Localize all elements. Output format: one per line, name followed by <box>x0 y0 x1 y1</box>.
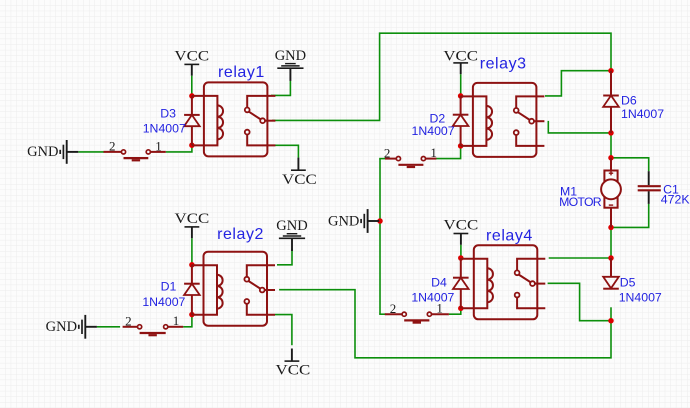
pin number 1 of S2 <box>173 313 180 328</box>
pin number 1 of S4 <box>436 301 443 316</box>
value label 1N4007 of D2 <box>412 124 455 138</box>
pin number 2 of S2 <box>125 314 132 329</box>
label relay2 <box>217 226 264 243</box>
svg-text:GND: GND <box>27 144 58 160</box>
wire VCC3 stem to relay3 coil top <box>460 74 462 96</box>
value label 472K of C1 <box>661 192 690 206</box>
junction relay3 coil+ / D2 / VCC3 <box>458 93 464 99</box>
power symbol VCC1 (above relay1) <box>174 49 209 76</box>
value label 1N4007 of D6 <box>621 107 664 121</box>
junction net B / D5 / relay4 common <box>608 318 614 324</box>
pushbutton S1 <box>104 150 166 162</box>
relay relay3 (coil + SPDT contacts) <box>461 83 545 157</box>
label D6 <box>621 94 637 108</box>
svg-text:2: 2 <box>390 301 397 316</box>
wire VCC2 stem to relay2 coil top <box>191 238 193 265</box>
wire button S3 pin1 to relay3 coil junction <box>436 146 461 159</box>
svg-text:1N4007: 1N4007 <box>621 107 664 121</box>
wire VCC4 stem to relay4 coil top <box>460 245 462 258</box>
svg-text:D5: D5 <box>620 275 636 289</box>
relay relay2 (coil + SPDT contacts) <box>192 252 276 326</box>
svg-text:relay1: relay1 <box>218 64 265 81</box>
diode D2 (1N4007, cathode up) <box>453 96 469 146</box>
wire relay2 NO to GND5 symbol <box>277 249 292 265</box>
junction net A / D6 / relay3 NO <box>608 68 614 74</box>
svg-text:VCC: VCC <box>175 211 210 227</box>
wire button S1 pin1 to relay1 coil junction <box>166 145 192 152</box>
diode D3 (1N4007, cathode up) <box>184 96 200 145</box>
junction center GND tap <box>377 218 383 224</box>
power symbol VCC2 (above relay2) <box>175 211 210 238</box>
ground symbol GND2 (left of button S2) <box>46 315 97 339</box>
svg-text:D6: D6 <box>621 94 637 108</box>
junction relay4 coil+ / D4 / VCC4 <box>458 255 464 261</box>
wire relay4 NO contact to D5 top junction <box>549 257 611 259</box>
junction motor- / C1 bottom <box>608 225 614 231</box>
svg-text:472K: 472K <box>661 192 690 206</box>
label D3 <box>160 107 176 121</box>
svg-text:D4: D4 <box>431 275 447 289</box>
label D5 <box>620 275 636 289</box>
capacitor C1 <box>638 171 661 204</box>
svg-text:relay3: relay3 <box>480 56 527 73</box>
wire motor top junction to C1 top <box>611 158 649 171</box>
wire GND1 to button S1 <box>78 151 104 153</box>
wire D5 bottom junction to bottom rail to relay2 common (net B) <box>279 290 611 358</box>
power symbol VCC3 (above relay3) <box>443 49 478 74</box>
wire relay1 NC to VCC5 symbol <box>275 145 298 158</box>
value label 1N4007 of D3 <box>143 122 186 136</box>
ground symbol GND1 (left of button S1) <box>27 140 78 164</box>
ground symbol GND5 (above relay2 NO) <box>276 218 307 251</box>
junction relay2 coil+ / D1 / VCC2 <box>189 262 195 268</box>
label D2 <box>429 112 445 126</box>
svg-text:1: 1 <box>155 138 162 153</box>
svg-text:1N4007: 1N4007 <box>411 291 454 305</box>
wire button S4 pin1 to relay4 coil junction <box>449 308 461 314</box>
value label 1N4007 of D1 <box>142 295 185 309</box>
svg-text:2: 2 <box>384 145 391 160</box>
wire button S4 pin2 elbow <box>379 313 386 315</box>
ground symbol GND4 (above relay1 NO) <box>275 48 306 81</box>
pin number 2 of S3 <box>384 145 391 160</box>
motor M1 <box>601 158 621 228</box>
junction relay2 coil- / D1 / S2 <box>189 312 195 318</box>
wire motor bottom junction to D5 top junction <box>610 227 612 258</box>
pushbutton S3 <box>385 157 436 169</box>
diode D4 (1N4007, cathode up) <box>453 258 469 308</box>
label D1 <box>161 280 177 294</box>
svg-text:VCC: VCC <box>174 49 209 65</box>
pushbutton S4 <box>385 312 449 324</box>
wire center GND vertical feeding buttons S3/S4 <box>379 159 381 315</box>
svg-text:GND: GND <box>328 213 359 229</box>
svg-text:VCC: VCC <box>276 363 311 379</box>
wire relay1 NO to GND4 symbol <box>271 81 290 96</box>
wire VCC1 stem to relay1 coil top <box>191 76 193 96</box>
svg-text:1: 1 <box>173 313 180 328</box>
label relay4 <box>486 227 533 244</box>
diode D1 (1N4007, cathode up) <box>184 265 200 315</box>
label relay3 <box>480 56 527 73</box>
wire relay2 NC to VCC6 symbol <box>275 315 292 346</box>
svg-text:D3: D3 <box>160 107 176 121</box>
wire D6 bottom to motor top junction <box>610 133 612 158</box>
pin number 1 of S1 <box>155 138 162 153</box>
svg-text:2: 2 <box>109 139 116 154</box>
svg-text:D1: D1 <box>161 280 177 294</box>
value label 1N4007 of D5 <box>619 291 662 305</box>
ground symbol GND3 (center, feeds S3/S4) <box>328 209 379 233</box>
wire GND2 to button S2 <box>97 326 120 328</box>
wire C1 bottom to motor bottom junction <box>611 204 649 228</box>
svg-text:GND: GND <box>276 218 307 234</box>
power symbol VCC5 (below relay1 NC) <box>282 158 317 188</box>
svg-text:1N4007: 1N4007 <box>619 291 662 305</box>
svg-text:1N4007: 1N4007 <box>143 122 186 136</box>
value label MOTOR of M1 <box>559 195 602 209</box>
junction relay4 coil- / D4 / S4 <box>458 306 464 312</box>
svg-text:1N4007: 1N4007 <box>142 295 185 309</box>
svg-text:relay2: relay2 <box>217 226 264 243</box>
junction relay1 coil+ / D3 / VCC1 <box>189 93 195 99</box>
wire relay3 NO contact to D6 top junction <box>545 71 611 96</box>
svg-text:1: 1 <box>436 301 443 316</box>
wire relay4 common to D5 bottom junction <box>548 283 611 320</box>
power symbol VCC4 (above relay4) <box>444 218 479 245</box>
svg-text:VCC: VCC <box>444 218 479 234</box>
label D4 <box>431 275 447 289</box>
svg-text:1N4007: 1N4007 <box>412 124 455 138</box>
svg-text:GND: GND <box>275 48 306 64</box>
pin number 2 of S1 <box>109 139 116 154</box>
junction relay3 coil- / D2 / S3 <box>458 143 464 149</box>
diode D6 (1N4007, cathode up) <box>603 71 619 133</box>
pin number 1 of S3 <box>430 145 437 160</box>
wire button S2 pin1 to relay2 coil junction <box>183 315 192 327</box>
relay relay1 (coil + SPDT contacts) <box>192 82 276 156</box>
wire relay3 common to D6 bottom junction <box>548 121 611 133</box>
wire relay1 common to top rail to D6 top (net A) <box>272 33 611 120</box>
junction D6 / relay3 common <box>608 130 614 136</box>
label relay1 <box>218 64 265 81</box>
svg-text:GND: GND <box>46 319 77 335</box>
label M1 <box>560 185 577 199</box>
svg-text:2: 2 <box>125 314 132 329</box>
svg-text:1: 1 <box>430 145 437 160</box>
pin number 2 of S4 <box>390 301 397 316</box>
junction motor+ / C1 top <box>608 155 614 161</box>
svg-text:relay4: relay4 <box>486 227 533 244</box>
svg-text:MOTOR: MOTOR <box>559 195 602 209</box>
junction D5 / relay4 NO <box>608 255 614 261</box>
relay relay4 (coil + SPDT contacts) <box>462 245 546 319</box>
junction relay1 coil- / D3 / S1 <box>189 142 195 148</box>
label C1 <box>663 182 679 196</box>
power symbol VCC6 (below relay2 NC) <box>276 349 311 379</box>
diode D5 (1N4007, cathode down) <box>603 258 619 289</box>
wire button S3 pin2 elbow <box>379 158 386 160</box>
svg-text:VCC: VCC <box>282 172 317 188</box>
pushbutton S2 <box>123 325 184 337</box>
wire D5 lead filler to bottom junction <box>610 307 612 320</box>
value label 1N4007 of D4 <box>411 291 454 305</box>
